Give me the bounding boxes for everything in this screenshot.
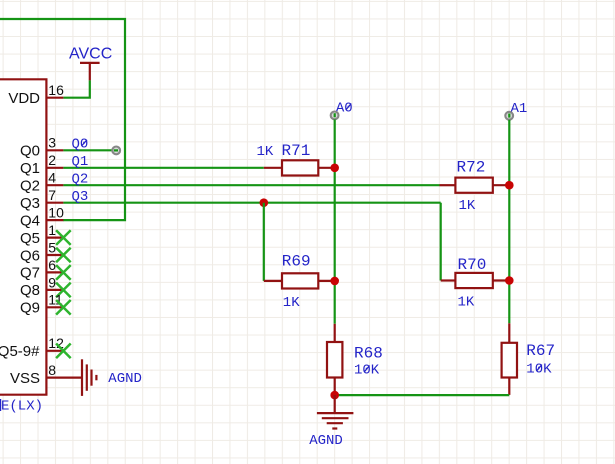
no-connect X on pin 12 <box>56 344 71 359</box>
wire Q3 branch down to R69 <box>263 203 265 281</box>
svg-text:AGND: AGND <box>108 371 142 387</box>
svg-text:2: 2 <box>48 152 56 168</box>
wire Q3 to R70 (right corner down) <box>440 203 442 281</box>
resistor R71 <box>264 160 335 175</box>
svg-text:Q1: Q1 <box>20 160 40 177</box>
svg-text:3: 3 <box>48 135 56 151</box>
svg-text:Q3: Q3 <box>20 195 40 212</box>
svg-text:Q0: Q0 <box>72 137 89 153</box>
resistor R72 <box>440 178 510 193</box>
svg-text:1K: 1K <box>283 295 300 311</box>
no-connect X on pin 6 <box>56 265 71 280</box>
pin 7 (Q3) <box>20 187 63 212</box>
svg-text:10K: 10K <box>526 362 552 378</box>
svg-text:5: 5 <box>48 239 56 255</box>
junction A0 / R71 <box>330 164 339 173</box>
wire AVCC to pin 16 <box>63 80 89 97</box>
svg-text:R69: R69 <box>282 252 311 270</box>
svg-text:Q9: Q9 <box>20 300 40 317</box>
wire net Q3 <box>63 202 440 204</box>
pin 8 (VSS) <box>10 362 81 387</box>
pin 10 (Q4) <box>20 205 64 230</box>
svg-text:Q2: Q2 <box>72 171 89 187</box>
svg-text:R71: R71 <box>282 142 311 160</box>
svg-text:R67: R67 <box>526 342 555 360</box>
wire net Q1 <box>63 167 263 169</box>
svg-text:AVCC: AVCC <box>69 45 112 62</box>
pin 16 (VDD) <box>8 82 64 107</box>
pin 6 (Q7) <box>20 257 63 282</box>
pin 12 (Q5-9#) <box>0 335 64 360</box>
no-connect X on pin 11 <box>56 300 71 315</box>
value 10K (R68) <box>354 363 380 379</box>
pin 11 (Q9) <box>20 292 63 317</box>
svg-text:Q4: Q4 <box>20 212 40 229</box>
svg-text:Q2: Q2 <box>20 178 40 195</box>
dangling end A0 (gray circle) <box>331 112 339 120</box>
value 10K (R67) <box>526 362 552 378</box>
svg-text:4: 4 <box>48 170 56 186</box>
net label A0 <box>336 101 353 117</box>
svg-text:Q5-9#: Q5-9# <box>0 343 40 360</box>
svg-text:10K: 10K <box>354 363 380 379</box>
pin 9 (Q8) <box>20 274 63 299</box>
resistor R70 <box>441 273 510 288</box>
svg-text:VSS: VSS <box>10 370 40 387</box>
pin 5 (Q6) <box>20 239 63 264</box>
junction A0 / R69 <box>330 277 339 286</box>
svg-text:VDD: VDD <box>8 90 40 107</box>
resistor R68 <box>327 324 342 395</box>
svg-text:E(LX): E(LX) <box>1 399 43 415</box>
no-connect X on pin 9 <box>56 283 71 298</box>
svg-text:6: 6 <box>48 257 56 273</box>
svg-text:1K: 1K <box>257 144 274 160</box>
pin 4 (Q2) <box>20 170 63 195</box>
svg-text:Q6: Q6 <box>20 247 40 264</box>
svg-text:1K: 1K <box>458 295 475 311</box>
junction A1 / R70 <box>505 276 514 285</box>
pin 2 (Q1) <box>20 152 63 177</box>
dangling end Q0 (gray circle) <box>112 147 120 155</box>
wire Q4 loop (top horizontal + right vertical) <box>0 19 125 220</box>
svg-text:R72: R72 <box>457 158 486 176</box>
pin 3 (Q0) <box>20 135 63 160</box>
IC U1 body (partial, clipped at left) <box>0 79 46 394</box>
value E(LX) (clipped at left) <box>0 399 1 411</box>
no-connect X on pin 5 <box>56 248 71 263</box>
svg-text:10: 10 <box>48 205 64 221</box>
pin 1 (Q5) <box>20 222 63 247</box>
dangling end A1 (gray circle) <box>505 112 513 120</box>
power symbol AVCC <box>80 63 100 81</box>
resistor R69 <box>264 273 335 288</box>
svg-text:1K: 1K <box>459 198 476 214</box>
no-connect X on pin 1 <box>56 230 71 245</box>
svg-text:R68: R68 <box>354 344 383 362</box>
junction A1 / R72 <box>505 181 514 190</box>
svg-text:Q3: Q3 <box>72 189 89 205</box>
resistor R67 <box>502 323 517 395</box>
svg-text:R70: R70 <box>458 256 487 274</box>
svg-text:Q8: Q8 <box>20 282 40 299</box>
svg-text:Q5: Q5 <box>20 230 40 247</box>
junction Q3 / R69 branch <box>260 198 269 207</box>
ground AGND (bottom) <box>317 395 354 428</box>
svg-text:7: 7 <box>48 187 56 203</box>
wire net Q0 <box>63 149 116 151</box>
svg-text:AGND: AGND <box>309 433 343 449</box>
svg-text:1: 1 <box>48 222 56 238</box>
svg-text:Q0: Q0 <box>20 143 40 160</box>
net label Q0 <box>72 137 89 153</box>
wire net A1 vertical <box>508 120 510 324</box>
wire net A0 vertical <box>334 119 336 323</box>
wire net Q2 <box>63 184 439 186</box>
svg-text:8: 8 <box>48 362 56 378</box>
wire bottom bus R68 to R67 <box>335 394 510 396</box>
svg-text:Q1: Q1 <box>72 154 89 170</box>
svg-text:9: 9 <box>48 274 56 290</box>
svg-text:16: 16 <box>48 82 64 98</box>
svg-text:Q7: Q7 <box>20 265 40 282</box>
ground AGND (left, rotated) <box>82 359 96 396</box>
junction R68 / ground bus <box>330 391 339 400</box>
